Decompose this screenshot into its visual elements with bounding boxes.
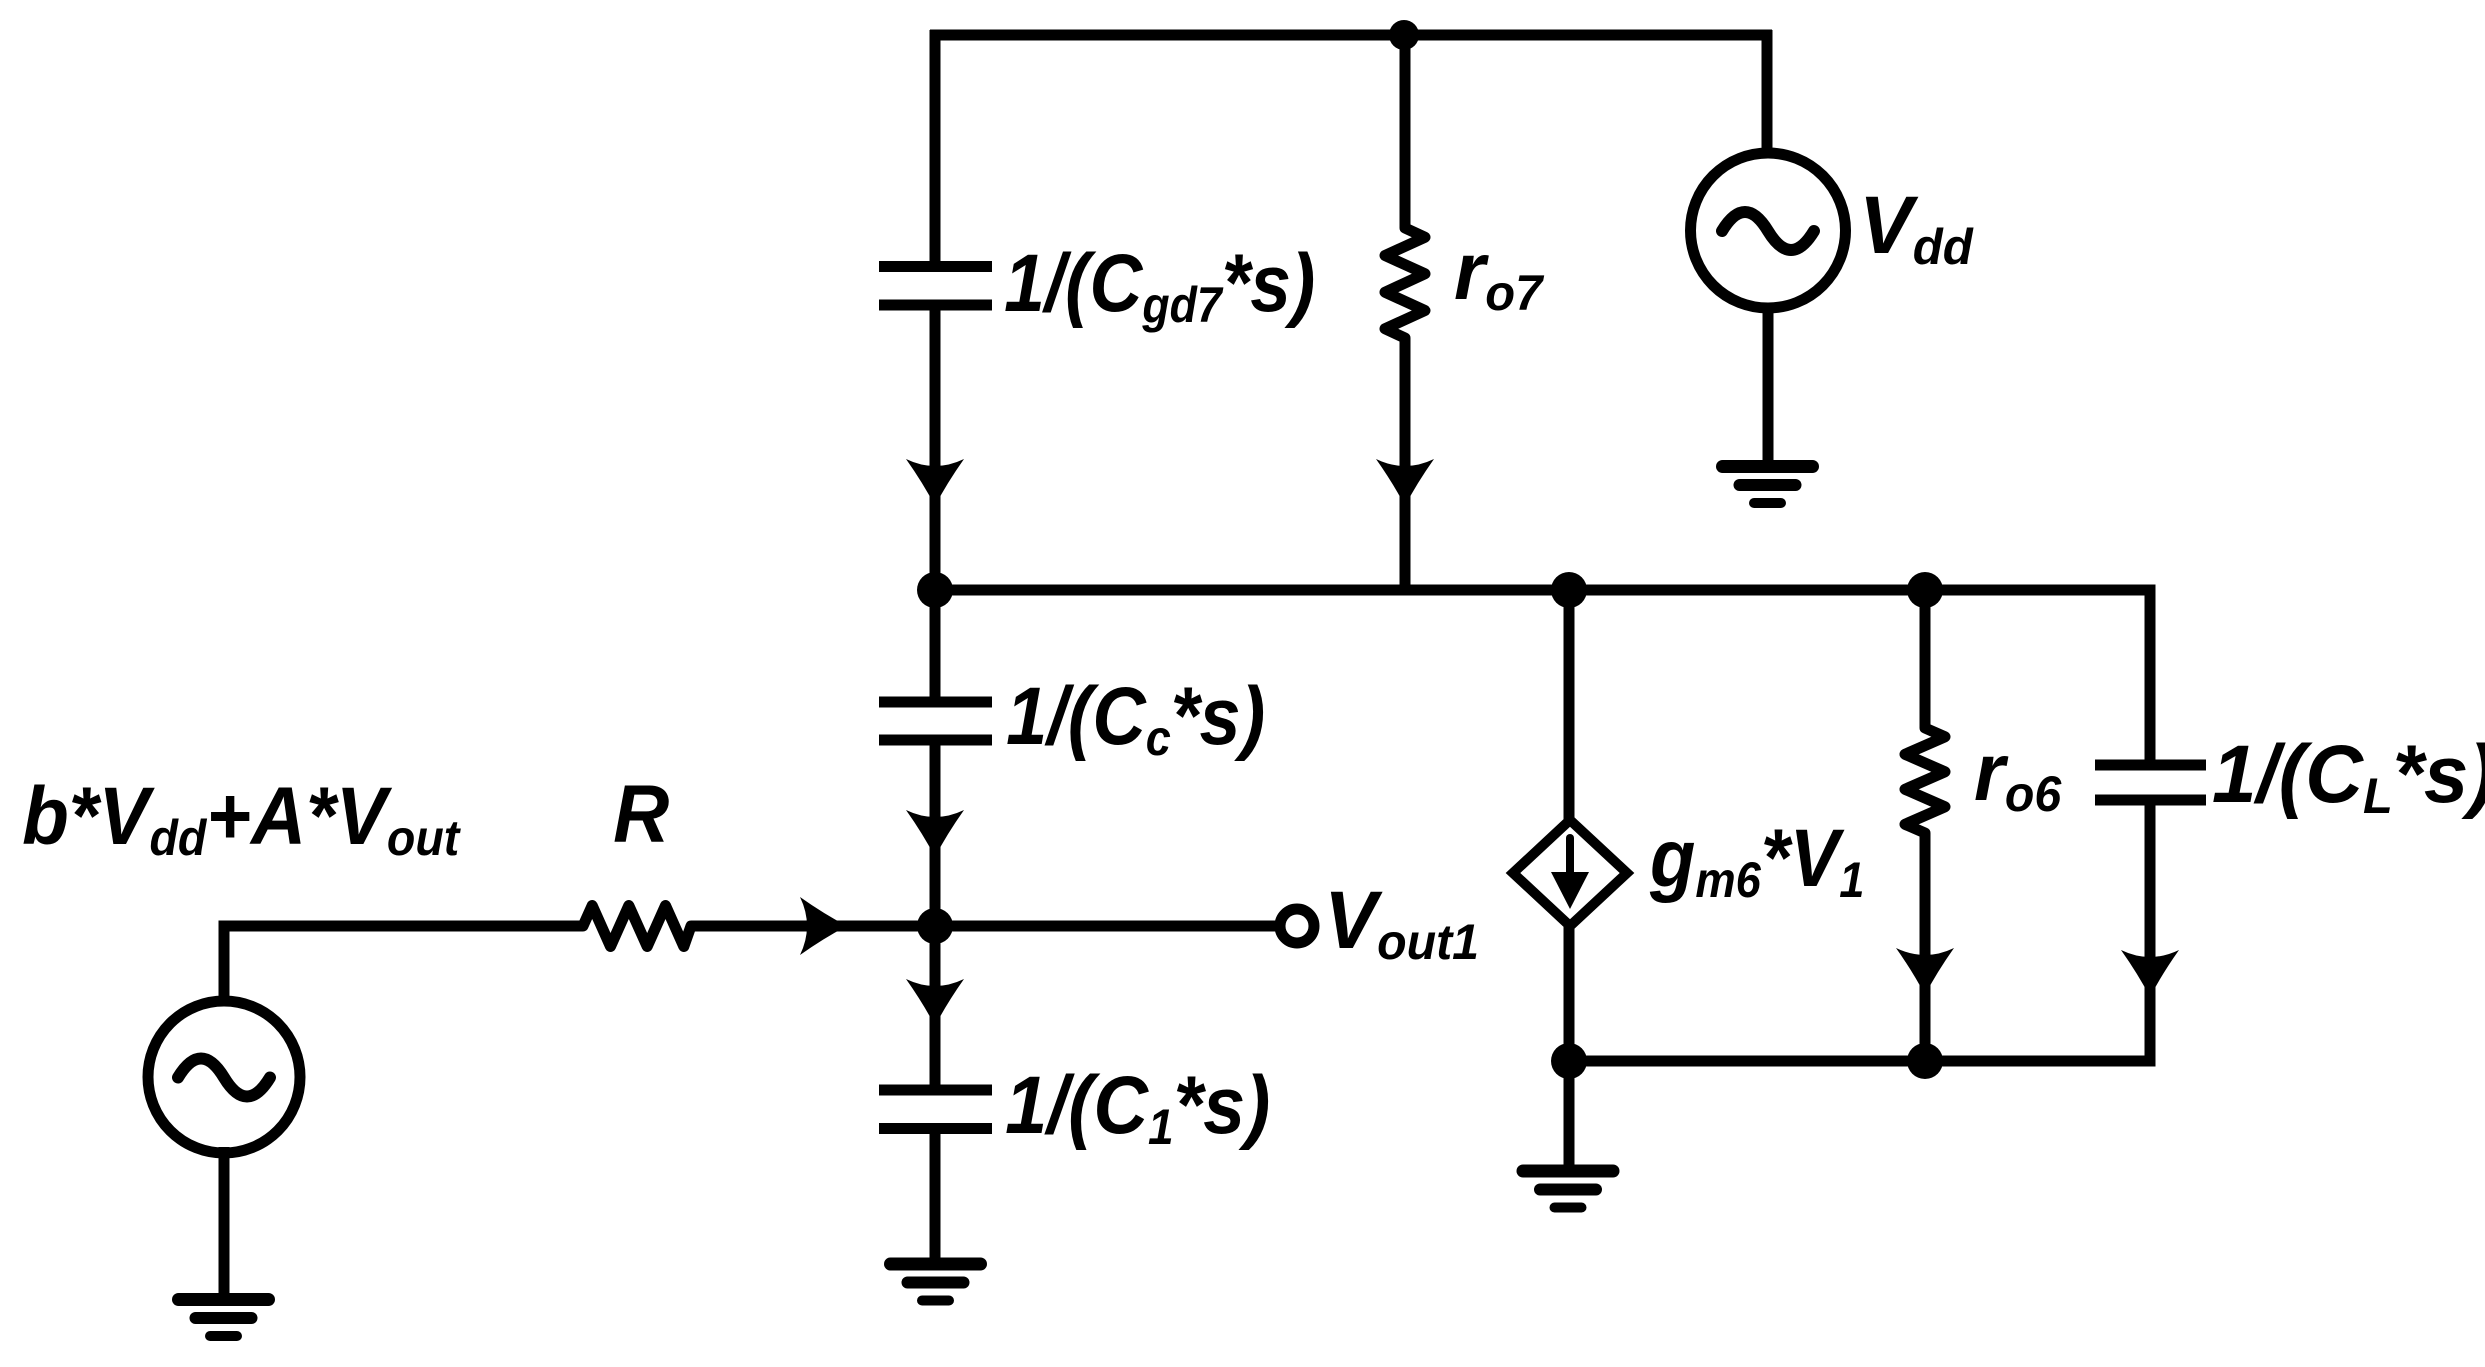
wire from top rail down to Cgd7: [930, 30, 941, 267]
ground below gm6: [1523, 1171, 1613, 1208]
svg-text:1/(C1*s): 1/(C1*s): [1005, 1059, 1270, 1155]
ground below left source: [179, 1300, 269, 1337]
wire bus down to Cc: [930, 590, 941, 702]
resistor ro7 upper wire: [1400, 30, 1411, 228]
ground below Vdd: [1723, 467, 1813, 504]
wire from source to ground: [219, 1147, 230, 1300]
label b*Vdd+A*Vout: [22, 770, 461, 867]
wire from bottom rail to ground: [1564, 1061, 1575, 1171]
wire bus to CL branch corner: [2145, 585, 2156, 766]
wire from Cgd7 down to bus node: [930, 305, 941, 590]
node junction dot bus ro6: [1907, 572, 1943, 608]
svg-text:R: R: [613, 768, 669, 859]
wire from node to Vout1 terminal: [935, 921, 1280, 932]
wire bottom rail: [1569, 1056, 2156, 1067]
current arrow into node: [800, 897, 847, 955]
terminal Vout1 open circle: [1280, 909, 1314, 943]
capacitor 1/(Cgd7*s): [879, 267, 992, 306]
voltage source Vdd: [1691, 153, 1846, 308]
node Vout1 junction dot: [917, 908, 953, 944]
voltage source b*Vdd+A*Vout: [148, 1001, 300, 1153]
svg-text:1/(CL*s): 1/(CL*s): [2212, 729, 2485, 824]
current arrow on CL branch: [2121, 950, 2179, 997]
current arrow on C1 branch: [906, 979, 964, 1026]
wire middle bus: [930, 585, 2156, 596]
label 1/(CL*s): [2212, 729, 2485, 824]
label ro6: [1974, 727, 2062, 822]
wire from C1 to ground: [930, 1129, 941, 1265]
node junction dot bus left: [917, 572, 953, 608]
label R: [613, 768, 669, 859]
wire from source up and right to resistor R: [224, 926, 583, 996]
wire from gm6 source down to bottom rail: [1564, 927, 1575, 1061]
wire from node down to C1: [930, 926, 941, 1090]
label 1/(Cgd7*s): [1004, 238, 1315, 333]
ground below C1: [891, 1264, 981, 1301]
capacitor 1/(CL*s): [2095, 765, 2206, 800]
current arrow on Cc branch: [906, 810, 964, 857]
resistor ro7: [1385, 218, 1425, 348]
label Vdd: [1859, 179, 1974, 275]
node junction dot bottom gm6: [1551, 1043, 1587, 1079]
capacitor 1/(C1*s): [879, 1090, 992, 1129]
resistor R: [573, 906, 701, 947]
wire top supply rail: [930, 30, 1772, 41]
resistor ro7 lower wire: [1400, 338, 1411, 590]
current arrow on Cgd7 branch: [906, 459, 964, 506]
label ro7: [1454, 226, 1545, 321]
resistor ro6 upper wire: [1920, 590, 1931, 728]
node junction dot bottom ro6: [1907, 1043, 1943, 1079]
wire bus down to gm6 source: [1564, 590, 1575, 819]
label gm6*V1: [1649, 812, 1864, 909]
dependent current source gm6*V1: [1513, 820, 1627, 926]
node junction dot bus gm6: [1551, 572, 1587, 608]
node junction dot top rail: [1389, 20, 1419, 50]
current arrow on ro6 branch: [1896, 948, 1954, 995]
wire from top rail down to Vdd source: [1762, 30, 1773, 155]
resistor ro6: [1905, 718, 1945, 843]
svg-text:1/(Cc*s): 1/(Cc*s): [1006, 669, 1265, 766]
current arrow on ro7 branch: [1376, 459, 1434, 506]
wire from R to Vout1 node: [691, 921, 935, 932]
label Vout1: [1324, 875, 1479, 970]
wire from Vdd source to ground: [1763, 306, 1774, 466]
wire from CL down to bottom rail: [2145, 800, 2156, 1067]
capacitor 1/(Cc*s): [879, 702, 992, 740]
resistor ro6 lower wire: [1920, 833, 1931, 1061]
label 1/(C1*s): [1005, 1059, 1270, 1155]
label 1/(Cc*s): [1006, 669, 1265, 766]
wire from Cc down to Vout1 node: [930, 740, 941, 926]
